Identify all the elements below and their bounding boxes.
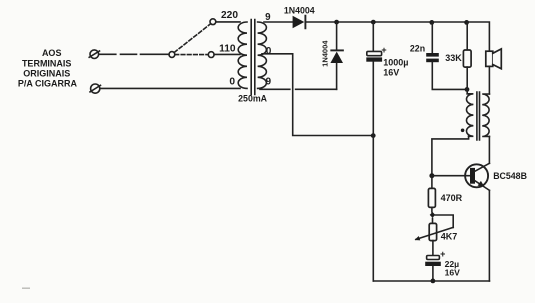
switch contact 220 [210, 19, 216, 25]
terminal E1 (screw head) [90, 50, 99, 59]
transformer T1 core [251, 20, 255, 95]
svg-text:P/A CIGARRA: P/A CIGARRA [18, 79, 78, 89]
svg-text:9: 9 [266, 76, 272, 87]
wire T2 left winding bottom to base node [432, 136, 469, 175]
svg-text:16V: 16V [383, 67, 399, 77]
svg-text:110: 110 [219, 44, 236, 55]
trimpot P1 wiper arrow shaft [416, 227, 453, 239]
capacitor C3 22u negative plate [425, 262, 441, 266]
svg-text:9: 9 [265, 12, 271, 23]
transformer T2 primary winding (left) [466, 94, 473, 136]
junction C3 ground [431, 279, 436, 284]
transformer T2 core [477, 92, 480, 140]
wire secondary 9 bottom to D2 anode (crossover gap) [260, 88, 337, 90]
capacitor C3 22u positive plate [427, 256, 440, 260]
wire 220 contact to primary [216, 21, 240, 23]
svg-text:ORIGINAIS: ORIGINAIS [23, 68, 70, 78]
capacitor C1 positive plate [367, 51, 382, 55]
wire speaker to T2 right winding [488, 66, 490, 94]
capacitor C1 negative plate [366, 57, 382, 61]
transistor Q1 emitter arrow [478, 181, 485, 187]
wire C3 to ground rail [432, 266, 434, 281]
switch pole node [169, 52, 175, 58]
faint scan mark [22, 288, 30, 289]
terminal E2 (screw head) [91, 84, 100, 93]
svg-text:16V: 16V [445, 267, 461, 277]
svg-text:0: 0 [229, 76, 235, 87]
resistor R2 470R body [428, 188, 435, 207]
svg-text:BC548B: BC548B [493, 171, 527, 181]
capacitor C1 1000u top lead [372, 22, 374, 51]
junction C1 top [371, 20, 376, 25]
wire C1 to ground rail [372, 62, 374, 281]
junction ground node [371, 133, 376, 138]
transistor Q1 collector stroke [475, 163, 490, 171]
svg-text:1N4004: 1N4004 [320, 40, 329, 67]
trimpot P1 wiper arrowhead [415, 236, 421, 240]
wire secondary 9 top to D1 [264, 21, 293, 23]
svg-text:1000µ: 1000µ [383, 58, 408, 68]
resistor R1 33K body [463, 50, 471, 67]
svg-text:+: + [440, 249, 445, 259]
speaker LS1 driver [486, 51, 493, 66]
svg-text:220: 220 [221, 10, 238, 21]
transformer T1 secondary winding [258, 22, 267, 88]
switch dashed throw to 220 contact [174, 24, 210, 53]
wire 110 contact to primary [214, 53, 240, 55]
trimpot P1 4K7 body [429, 223, 436, 240]
diode D2 1N4004 vertical [336, 22, 338, 49]
junction C2 22n top [429, 20, 434, 25]
switch dashed throw to 110 contact [175, 54, 208, 56]
wire E1 to switch pole (dash-dot) [99, 53, 169, 55]
top rail wire [305, 22, 489, 51]
svg-text:TERMINAIS: TERMINAIS [22, 58, 72, 68]
resistor R2 470R top lead [431, 176, 433, 189]
resistor R2 470R bottom lead [431, 207, 433, 212]
wire C2 bottom [432, 62, 467, 89]
junction rectifier output node [334, 20, 339, 25]
junction T2 top / R1 bottom [465, 87, 470, 92]
ground rail [373, 280, 489, 282]
svg-text:+: + [381, 45, 386, 55]
svg-text:AOS: AOS [42, 48, 62, 58]
diode D1 1N4004 [293, 16, 305, 29]
svg-text:33K: 33K [445, 53, 462, 63]
svg-text:0: 0 [266, 46, 272, 57]
wire emitter to ground rail [488, 190, 490, 281]
transformer T1 primary winding [238, 22, 247, 88]
capacitor C2 plate 2 [426, 59, 439, 63]
transformer T2 secondary winding (right) [482, 94, 489, 136]
svg-text:470R: 470R [441, 193, 463, 203]
trimpot P1 wiper loop [436, 215, 454, 227]
svg-text:1N4004: 1N4004 [284, 5, 315, 15]
capacitor C2 plate 1 [426, 53, 439, 57]
transistor Q1 BC548B body [465, 164, 488, 187]
resistor R1 33K leads [466, 22, 468, 50]
svg-text:250mA: 250mA [238, 93, 267, 103]
switch contact 110 [208, 52, 214, 58]
wire E2 to primary 0 tap [100, 87, 240, 89]
speaker LS1 horn [493, 49, 502, 69]
wire collector to T2 right winding [488, 136, 490, 163]
trimpot P1 4K7 top lead [432, 218, 434, 223]
junction wiper node (diamond) [430, 212, 436, 218]
wire secondary 0 tap to ground node [262, 54, 371, 136]
junction base node [429, 173, 434, 178]
wire base to Q1 [432, 175, 470, 177]
transistor Q1 base bar [470, 168, 475, 184]
transistor Q1 emitter stroke [475, 181, 490, 191]
trimpot P1 bottom lead [432, 241, 434, 256]
svg-text:4K7: 4K7 [441, 232, 458, 242]
svg-text:22n: 22n [410, 43, 425, 53]
junction R1 33K top [464, 20, 469, 25]
transformer T2 phasing dot [461, 129, 465, 133]
capacitor C2 22n top lead [431, 22, 433, 53]
